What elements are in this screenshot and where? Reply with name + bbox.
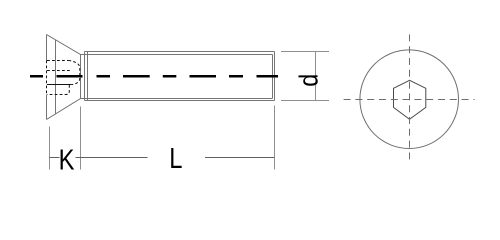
shaft bottom outer edge [85, 100, 275, 102]
svg-text:K: K [59, 143, 75, 176]
head flat face lower solid segment [46, 95, 48, 120]
L extension line right [274, 106, 276, 170]
socket lower flat edge (visible) [47, 84, 72, 86]
socket lower-right corner (hidden) [47, 85, 69, 95]
shaft top thread root line [81, 54, 273, 56]
shaft bottom thread root line [81, 98, 273, 100]
axis dash 5 [163, 75, 177, 78]
vertical centerline [409, 34, 411, 164]
shaft top outer edge [85, 51, 275, 53]
head flat face upper solid segment [46, 35, 48, 61]
socket drill-cone bulge (hidden) [68, 61, 80, 85]
svg-text:d: d [295, 74, 323, 87]
K extension line right [80, 107, 82, 170]
head-shaft junction vertical 1 [84, 52, 86, 101]
shaft end face [274, 52, 276, 101]
axis dash 8 [257, 75, 279, 78]
axis dash 4 [123, 75, 150, 78]
axis dash 6 [190, 75, 217, 78]
head cone upper edge [47, 35, 81, 55]
shaft end chamfer line [272, 55, 274, 99]
cone-to-thread-root junction vertical [80, 55, 82, 99]
d dimension line [315, 52, 317, 101]
d extension line bottom [281, 100, 329, 102]
hex socket [394, 80, 426, 119]
head cone lower edge [47, 99, 81, 120]
L dimension line right segment [205, 157, 275, 159]
K/L dimension line middle segment [76, 157, 148, 159]
d extension line top [281, 51, 329, 53]
K dimension line left stub [50, 157, 60, 159]
head outline circle [360, 50, 459, 149]
axis dash 2 [57, 75, 83, 78]
axis dash 1 [30, 75, 43, 78]
socket upper flat edge (hidden) [47, 70, 70, 72]
countersink circle edge vertical [55, 40, 57, 115]
socket top silhouette (hidden) [47, 60, 68, 62]
svg-text:L: L [169, 142, 182, 175]
head-shaft junction vertical 2 [87, 52, 89, 101]
horizontal centerline [344, 99, 475, 101]
socket opening at head face (hidden) [46, 61, 48, 95]
K extension line left [49, 127, 51, 170]
axis dash 7 [229, 75, 243, 78]
axis dash 3 [97, 75, 111, 78]
